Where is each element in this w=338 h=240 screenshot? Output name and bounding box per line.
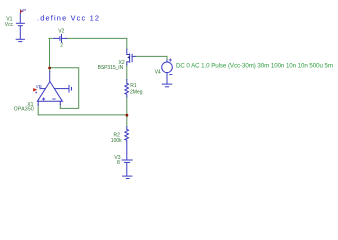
svg-text:R1: R1 — [130, 83, 137, 89]
svg-text:.define Vcc 12: .define Vcc 12 — [37, 13, 99, 22]
svg-text:BSP315_IN: BSP315_IN — [98, 65, 124, 71]
svg-text:2Meg: 2Meg — [130, 90, 143, 96]
svg-text:VB: VB — [36, 84, 42, 89]
svg-text:VP: VP — [20, 8, 26, 13]
svg-text:V2: V2 — [58, 29, 64, 35]
svg-text:2: 2 — [60, 42, 63, 48]
svg-text:V4: V4 — [155, 70, 161, 76]
svg-text:DC 0 AC 1.0 Pulse (Vcc-30m) 30: DC 0 AC 1.0 Pulse (Vcc-30m) 30m 100n 10n… — [176, 63, 333, 70]
svg-text:100k: 100k — [111, 138, 122, 144]
svg-text:Vcc: Vcc — [5, 22, 14, 28]
svg-text:OPA350: OPA350 — [14, 107, 34, 113]
svg-text:8: 8 — [117, 160, 120, 166]
